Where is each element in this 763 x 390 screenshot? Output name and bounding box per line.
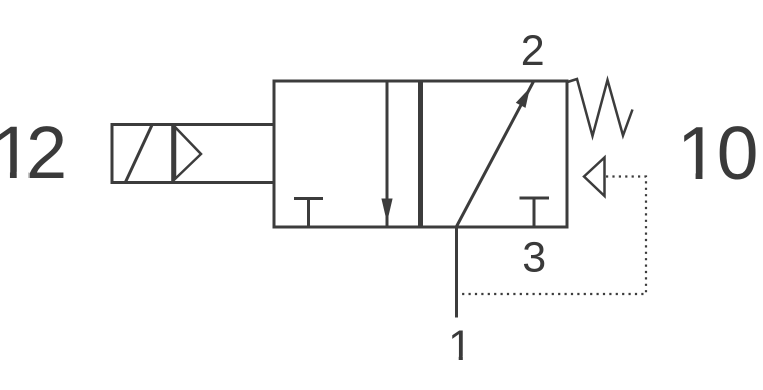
svg-text:2: 2 xyxy=(26,111,67,194)
flow arrow down left square xyxy=(381,82,392,226)
flow arrow diagonal right square xyxy=(457,82,534,227)
svg-text:1: 1 xyxy=(448,322,472,370)
port label 1 xyxy=(448,322,472,370)
pilot signal dotted line xyxy=(457,177,646,295)
signal label 12 xyxy=(0,111,67,194)
solenoid divider xyxy=(171,125,174,183)
valve body outer rectangle xyxy=(274,81,567,227)
port 1 line xyxy=(455,227,458,318)
svg-text:2: 2 xyxy=(521,27,545,75)
pilot triangle port 10 xyxy=(584,158,605,197)
blocked port T left square xyxy=(294,199,323,227)
solenoid pilot triangle xyxy=(175,127,201,179)
valve position divider xyxy=(418,81,423,227)
signal label 10 xyxy=(677,111,758,195)
svg-text:3: 3 xyxy=(522,233,546,281)
solenoid coil box xyxy=(112,125,274,183)
svg-text:1: 1 xyxy=(677,111,719,195)
return spring xyxy=(568,79,633,136)
solenoid diagonal stroke xyxy=(126,125,153,182)
blocked port T right square xyxy=(520,198,550,226)
svg-text:0: 0 xyxy=(717,111,759,195)
